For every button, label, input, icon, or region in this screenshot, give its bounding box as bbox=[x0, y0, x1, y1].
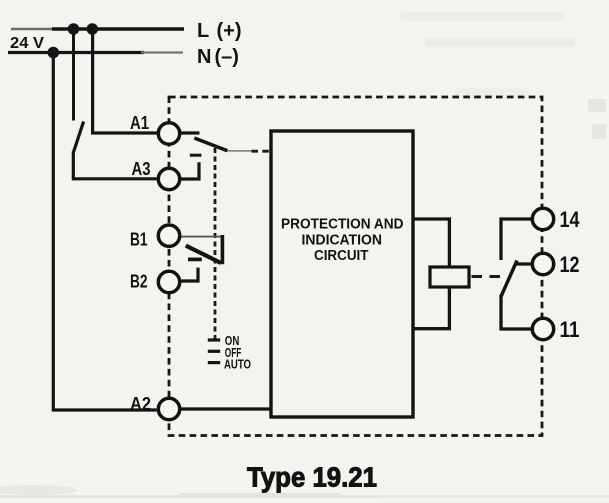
B1 contact blade bbox=[186, 246, 221, 263]
wire L line to external switch bbox=[72, 29, 75, 121]
position tick AUTO bbox=[208, 361, 220, 364]
svg-text:14: 14 bbox=[560, 207, 581, 232]
A1 contact blade bbox=[194, 138, 227, 151]
wire L line to A1 bbox=[93, 29, 157, 133]
svg-text:(–): (–) bbox=[215, 46, 239, 68]
label N (-) bbox=[197, 46, 239, 68]
B fixed contact mark bbox=[188, 258, 202, 262]
label PROTECTION AND INDICATION CIRCUIT bbox=[281, 217, 404, 264]
wire N line to A2 bbox=[53, 53, 156, 411]
svg-text:L: L bbox=[197, 20, 209, 42]
junction dot on L line left bbox=[68, 23, 80, 35]
A1 internal contact wire bbox=[179, 131, 200, 134]
terminal B2 bbox=[158, 271, 179, 292]
external switch S blade bbox=[73, 122, 83, 154]
svg-text:12: 12 bbox=[560, 252, 580, 277]
svg-text:AUTO: AUTO bbox=[224, 358, 251, 372]
wire A1 blade to circuit box bbox=[227, 150, 271, 152]
junction dot on N line bbox=[48, 47, 60, 59]
wire terminal 11 to blade pivot bbox=[501, 295, 532, 329]
A1 fixed contact mark bbox=[190, 154, 202, 157]
label L (+) bbox=[197, 20, 242, 42]
junction dot on L line right bbox=[87, 23, 99, 35]
svg-text:CIRCUIT: CIRCUIT bbox=[314, 248, 369, 264]
wire terminal 12 stub bbox=[517, 262, 533, 265]
svg-text:11: 11 bbox=[560, 317, 580, 342]
wire circuit box to relay coil top bbox=[413, 219, 449, 268]
terminal B1 bbox=[158, 225, 179, 246]
A3 internal contact hook bbox=[179, 162, 199, 179]
coil to contact linkage dashed bbox=[472, 275, 502, 278]
svg-text:24 V: 24 V bbox=[10, 35, 44, 52]
terminal 12 bbox=[532, 253, 553, 274]
position tick OFF bbox=[208, 350, 220, 353]
position tick ON bbox=[208, 338, 220, 341]
terminal A1 bbox=[158, 123, 179, 144]
relay coil K1 bbox=[430, 267, 469, 287]
svg-text:Type 19.21: Type 19.21 bbox=[247, 462, 377, 493]
wire switch to A3 bbox=[73, 152, 157, 179]
svg-text:A1: A1 bbox=[130, 113, 149, 133]
B1 contact bar bbox=[221, 235, 225, 264]
svg-text:(+): (+) bbox=[217, 20, 242, 42]
B1 internal wire thin bbox=[181, 236, 223, 238]
svg-text:N: N bbox=[197, 46, 211, 68]
protection and indication circuit box U1 bbox=[271, 131, 413, 417]
wire A2 to circuit box bbox=[180, 407, 271, 410]
wire N supply line bbox=[8, 51, 183, 54]
terminal 11 bbox=[532, 318, 553, 339]
svg-text:INDICATION: INDICATION bbox=[302, 232, 383, 248]
wire terminal 14 to NO fixed contact bbox=[501, 219, 532, 260]
wire L supply line bbox=[11, 28, 184, 30]
svg-text:A2: A2 bbox=[130, 394, 151, 414]
relay module outline dashed box bbox=[169, 97, 542, 436]
terminal A2 bbox=[158, 398, 179, 419]
terminal 14 bbox=[532, 208, 553, 229]
terminal A3 bbox=[158, 168, 179, 189]
svg-text:B1: B1 bbox=[130, 230, 148, 250]
svg-text:A3: A3 bbox=[132, 159, 151, 179]
B2 internal contact hook bbox=[179, 268, 198, 281]
wire relay coil to circuit box bottom bbox=[413, 286, 449, 329]
relay contact blade bbox=[501, 261, 517, 297]
svg-text:PROTECTION AND: PROTECTION AND bbox=[281, 217, 404, 233]
svg-text:B2: B2 bbox=[130, 272, 148, 292]
manual switch linkage dashed bbox=[214, 148, 217, 341]
